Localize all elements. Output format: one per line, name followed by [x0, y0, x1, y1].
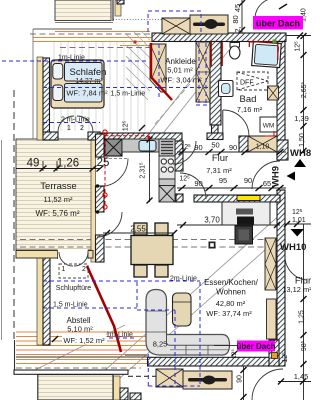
svg-text:2,: 2, [233, 26, 242, 32]
svg-text:WF: 7,84 m²: WF: 7,84 m² [66, 89, 108, 98]
svg-text:80: 80 [231, 15, 240, 23]
svg-text:1,50: 1,50 [299, 133, 306, 147]
svg-text:WF: 37,74 m²: WF: 37,74 m² [206, 309, 252, 318]
svg-text:1,45: 1,45 [294, 372, 309, 381]
svg-text:5,01 m²: 5,01 m² [167, 66, 193, 75]
svg-text:WH10: WH10 [280, 242, 306, 253]
svg-text:7,31 m²: 7,31 m² [206, 166, 232, 175]
svg-text:WF: 1,52 m²: WF: 1,52 m² [63, 336, 105, 345]
svg-text:Schlafen: Schlafen [70, 67, 107, 78]
svg-text:1: 1 [62, 266, 66, 273]
svg-text:über Dach: über Dach [256, 19, 300, 29]
svg-text:1,5 m-Linie: 1,5 m-Linie [111, 91, 146, 98]
svg-text:90: 90 [194, 143, 202, 152]
svg-text:13,12 m²: 13,12 m² [282, 285, 311, 294]
svg-text:2: 2 [80, 125, 84, 132]
svg-text:WF: 3,04 m²: WF: 3,04 m² [160, 76, 202, 85]
svg-text:Bad: Bad [240, 94, 257, 105]
svg-text:2 m-Linie: 2 m-Linie [61, 117, 90, 124]
svg-text:1,10: 1,10 [256, 144, 270, 151]
svg-text:1m-Linie: 1m-Linie [58, 55, 85, 62]
svg-text:11,52 m²: 11,52 m² [43, 195, 73, 204]
svg-text:Schlupftüre: Schlupftüre [56, 285, 92, 292]
svg-text:7,16 m²: 7,16 m² [237, 105, 263, 114]
svg-text:1: 1 [67, 125, 71, 132]
svg-text:Terrasse: Terrasse [40, 181, 76, 192]
svg-text:3,70: 3,70 [204, 216, 220, 225]
svg-text:Wohnen: Wohnen [216, 288, 246, 297]
svg-text:5,10 m²: 5,10 m² [67, 325, 93, 334]
svg-text:49: 49 [27, 158, 40, 170]
svg-text:42,80 m²: 42,80 m² [216, 299, 246, 308]
svg-text:Essen/Kochen/: Essen/Kochen/ [204, 278, 259, 287]
svg-text:45: 45 [233, 4, 242, 12]
svg-text:90: 90 [229, 143, 237, 152]
svg-text:WH8: WH8 [290, 148, 311, 159]
svg-text:1,39: 1,39 [294, 114, 309, 123]
svg-text:1,26: 1,26 [57, 158, 79, 170]
svg-text:Flur: Flur [212, 153, 228, 164]
svg-text:2,55: 2,55 [130, 225, 146, 234]
svg-text:1,5 m-Linie: 1,5 m-Linie [53, 302, 88, 309]
svg-text:90: 90 [244, 176, 252, 185]
svg-text:2m-Linie: 2m-Linie [170, 276, 197, 283]
svg-text:50: 50 [211, 141, 219, 150]
svg-text:WM: WM [263, 123, 275, 130]
svg-text:95: 95 [219, 176, 227, 185]
svg-text:90: 90 [237, 375, 244, 383]
svg-text:WF: 5,76 m²: WF: 5,76 m² [35, 209, 79, 218]
svg-text:90: 90 [194, 179, 202, 188]
svg-text:2: 2 [82, 266, 86, 273]
svg-text:DFF: DFF [240, 80, 254, 87]
svg-text:1m-Linie: 1m-Linie [106, 332, 133, 339]
svg-text:1,01: 1,01 [292, 217, 306, 224]
svg-text:14,37 m²: 14,37 m² [75, 78, 103, 85]
svg-text:8,25: 8,25 [153, 340, 168, 349]
svg-text:WH9: WH9 [271, 166, 282, 187]
svg-text:über Dach: über Dach [236, 342, 275, 351]
svg-text:25: 25 [97, 157, 110, 169]
svg-text:1,25: 1,25 [299, 310, 306, 324]
